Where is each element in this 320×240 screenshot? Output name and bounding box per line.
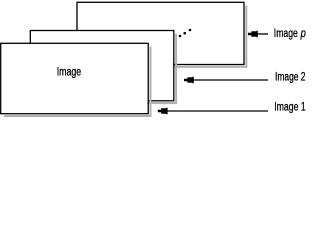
svg-text:p: p <box>300 28 306 40</box>
arrow to Image 2 <box>184 77 194 84</box>
back card shadow <box>245 6 247 68</box>
svg-text:Image 2: Image 2 <box>275 72 306 84</box>
svg-text:Image 1: Image 1 <box>274 101 306 113</box>
arrow to Image 1 <box>158 108 168 115</box>
svg-text:Image: Image <box>57 66 81 78</box>
arrow to Image p <box>248 31 258 38</box>
back card (Image p) <box>77 2 244 64</box>
middle card shadow <box>175 34 177 104</box>
front card shadow <box>150 47 152 118</box>
ellipsis dots <box>179 35 182 38</box>
front card (Image 1) <box>1 43 149 113</box>
middle card (Image 2) <box>30 31 174 101</box>
svg-text:Image: Image <box>274 28 298 40</box>
